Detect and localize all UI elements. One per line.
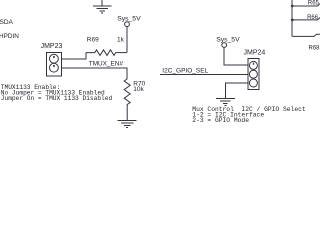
power Sys_5V (left)	[125, 22, 130, 53]
svg-text:JMP24: JMP24	[244, 50, 266, 57]
wire I2C_GPIO_SEL net	[160, 73, 248, 75]
svg-text:TMUX_EN#: TMUX_EN#	[89, 60, 124, 67]
node junction on bus	[291, 19, 294, 22]
svg-text:R69: R69	[87, 37, 99, 44]
jumper JMP23	[46, 53, 61, 76]
wire JMP23 pin1 to R69	[62, 53, 87, 59]
svg-text:R66: R66	[307, 15, 319, 21]
wire TMUX_EN# net	[62, 68, 128, 79]
wire bus top right	[291, 0, 293, 36]
svg-text:SDA: SDA	[0, 19, 14, 26]
svg-text:10k: 10k	[133, 86, 144, 93]
wire to R66	[292, 18, 320, 20]
svg-text:Sys_5V: Sys_5V	[216, 37, 240, 44]
svg-text:2-3 = GPIO Mode: 2-3 = GPIO Mode	[192, 117, 249, 124]
pin mark JMP23-2	[53, 65, 55, 67]
svg-text:Jumper On = TMUX 1133 Disabled: Jumper On = TMUX 1133 Disabled	[1, 95, 113, 102]
resistor R69	[86, 50, 127, 56]
ground	[118, 120, 137, 127]
svg-text:R65: R65	[308, 1, 320, 7]
node junction on bus	[291, 5, 294, 8]
ground	[93, 0, 112, 13]
power Sys_5V (right)	[222, 43, 248, 66]
svg-text:Sys_5V: Sys_5V	[117, 16, 141, 23]
svg-text:JMP23: JMP23	[41, 43, 63, 50]
svg-text:1k: 1k	[117, 37, 125, 44]
svg-text:I2C_GPIO_SEL: I2C_GPIO_SEL	[162, 68, 208, 75]
pin mark JMP23-1	[53, 56, 55, 58]
jumper JMP24	[248, 59, 259, 90]
svg-text:HPDIN: HPDIN	[0, 33, 19, 40]
ground	[216, 98, 235, 105]
wire to R65	[292, 4, 320, 6]
resistor R70	[124, 79, 130, 120]
svg-text:R68: R68	[309, 46, 320, 52]
pin mark JMP24-1	[253, 63, 254, 65]
wire and resistor R68	[292, 34, 320, 36]
wire JMP24 pin3 to ground	[225, 83, 248, 98]
